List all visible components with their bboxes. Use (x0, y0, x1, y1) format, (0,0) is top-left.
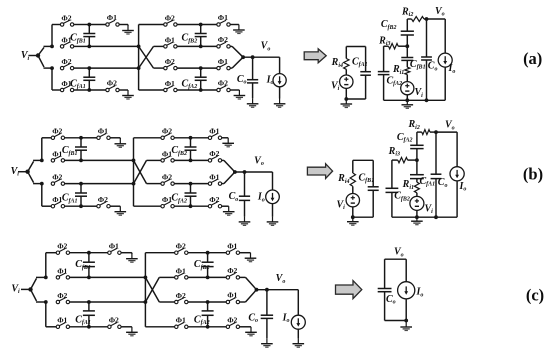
ground (341, 99, 353, 108)
ground (115, 206, 127, 215)
ground (245, 253, 257, 262)
node ground middle (405, 98, 409, 102)
wire (177, 67, 201, 69)
switch S8 phi1 a stage2-left (164, 42, 177, 48)
svg-text:Φ1: Φ1 (227, 291, 237, 300)
ground (267, 217, 279, 226)
wire (240, 252, 251, 254)
switch S10 phi1 c stage2-left (175, 323, 188, 329)
ground (274, 99, 286, 108)
svg-text:Φ2: Φ2 (109, 316, 119, 325)
wire (74, 89, 90, 91)
wire (240, 326, 251, 328)
wire (70, 301, 89, 303)
wire riser up (51, 25, 53, 47)
ground (245, 327, 257, 336)
wire riser up (41, 138, 43, 161)
ground (233, 25, 245, 34)
wire crossing diagonal 1 (134, 160, 147, 183)
node interstage (132, 159, 136, 163)
switch S11 phi1 a stage2-right (201, 24, 217, 26)
capacitor Co (a-eq) (426, 19, 428, 57)
switch S1 phi2 b stage1-left (51, 134, 64, 140)
node C (b-eq) (415, 158, 419, 162)
wire (222, 205, 229, 207)
switch S8 phi1 c stage2-left (175, 273, 188, 279)
capacitor CfA2 b (189, 182, 193, 186)
wire output diagonal from row2 (230, 45, 232, 47)
svg-text:Φ2: Φ2 (227, 266, 237, 275)
capacitor CfB2 (b-eq) (391, 160, 393, 188)
svg-text:Φ2: Φ2 (227, 316, 237, 325)
node ground left loop (351, 215, 355, 219)
svg-text:Φ1: Φ1 (109, 241, 119, 250)
wire (65, 159, 81, 161)
capacitor CfA1 c (87, 300, 91, 304)
wire (119, 89, 128, 91)
wire (177, 24, 201, 26)
current source Io b (272, 172, 274, 190)
switch S3 phi2 c stage1-left (56, 298, 69, 304)
switch S9 phi2 b stage2-left (161, 179, 174, 185)
wire interstage vertical (133, 138, 135, 206)
svg-text:Φ1: Φ1 (209, 127, 219, 136)
svg-text:Φ2: Φ2 (176, 242, 186, 251)
wire (65, 137, 81, 139)
wire (174, 205, 190, 207)
capacitor CfA1 a (87, 66, 91, 70)
switch S11 phi1 c stage2-right (208, 252, 227, 254)
wire (110, 137, 120, 139)
wire (38, 47, 44, 55)
wire bottom rail left loop (345, 88, 347, 99)
node interstage (144, 276, 148, 280)
wire (74, 24, 90, 26)
resistor Ri2 (b-eq) (417, 131, 422, 133)
capacitor CfA1 (b-eq) (416, 160, 418, 175)
switch S10 phi1 b stage2-left (161, 202, 174, 208)
wire (230, 89, 239, 91)
wire bottom rail (b-eq) (392, 216, 457, 218)
wire riser down (41, 184, 43, 207)
svg-text:Φ2: Φ2 (52, 173, 62, 182)
svg-text:Φ2: Φ2 (57, 242, 67, 251)
switch S2 phi1 c stage1-left (56, 273, 69, 279)
wire (188, 276, 208, 278)
switch S1 phi2 c stage1-left (56, 248, 69, 254)
wire bottom rail left loop (352, 207, 354, 217)
node (425, 98, 429, 102)
wire (177, 89, 201, 91)
wire output diagonal from row3 (222, 183, 224, 185)
svg-text:Φ2: Φ2 (165, 13, 175, 22)
node ground left loop (344, 97, 348, 101)
current source Io (a-eq) (444, 19, 446, 53)
svg-text:Φ2: Φ2 (165, 57, 175, 66)
wire (230, 24, 239, 26)
ground (122, 90, 134, 99)
svg-text:(a): (a) (523, 49, 542, 68)
ground (126, 253, 138, 262)
ground (223, 206, 235, 215)
ground (261, 338, 273, 347)
node Vo output b (233, 170, 237, 174)
resistor Ri2 (a-eq) (407, 18, 411, 20)
wire output diagonal from row2 (222, 159, 224, 161)
capacitor Co (b-eq) (435, 132, 437, 174)
switch S7 phi2 b stage2-left (161, 134, 174, 140)
svg-text:Φ2: Φ2 (162, 173, 172, 182)
ground (122, 25, 134, 34)
wire (81, 159, 134, 161)
resistor Ri1 (b-eq) (414, 182, 419, 193)
wire (81, 183, 134, 185)
resistor Ri4 (a-eq) (345, 47, 347, 59)
wire (70, 326, 89, 328)
svg-text:Φ1: Φ1 (57, 266, 67, 275)
switch S13 phi1 a stage2-right (201, 67, 217, 69)
svg-text:Φ2: Φ2 (209, 149, 219, 158)
current source Io c (297, 290, 299, 316)
node riser bottom (44, 300, 48, 304)
switch S5 phi1 b stage1 row1 to ground (81, 137, 97, 139)
switch S12 phi2 a stage2-right (201, 45, 217, 47)
capacitor CfB1 a (87, 23, 91, 27)
switch S6 phi2 c stage1 row4 to ground (89, 326, 108, 328)
svg-text:Φ1: Φ1 (176, 266, 186, 275)
ground (115, 138, 127, 147)
switch S14 phi2 c stage2-right (208, 326, 227, 328)
svg-text:Φ2: Φ2 (218, 35, 228, 44)
svg-text:Φ1: Φ1 (165, 79, 175, 88)
switch S14 phi2 a stage2-right (201, 89, 217, 91)
node Vo output c (255, 288, 259, 292)
capacitor CfB1 c (87, 251, 91, 255)
switch S10 phi1 a stage2-left (164, 86, 177, 92)
wire crossing diagonal 2 (139, 46, 154, 68)
node riser bottom (50, 66, 54, 70)
switch S8 phi1 b stage2-left (161, 156, 174, 162)
capacitor CfB2 b (189, 136, 193, 140)
wire riser down (51, 68, 53, 90)
voltage source Vi (a-eq left loop) (340, 75, 353, 88)
wire (174, 183, 190, 185)
svg-text:Φ1: Φ1 (107, 13, 117, 22)
arrow (c) implies (336, 281, 362, 299)
node (404, 319, 408, 323)
ground (402, 100, 414, 108)
node riser top (50, 45, 54, 49)
voltage source Vi (b-eq left loop) (346, 194, 359, 207)
node (434, 215, 438, 219)
resistor Ri4 (b-eq) (352, 160, 354, 173)
current source Io (b-eq) (456, 132, 458, 167)
switch S2 phi1 b stage1-left (51, 156, 64, 162)
resistor Ri1 (a-eq) (405, 67, 410, 74)
switch S7 phi2 c stage2-left (175, 248, 188, 254)
switch S5 phi1 a stage1 row1 to ground (89, 24, 106, 26)
node Vo output a (241, 55, 245, 59)
svg-text:Φ1: Φ1 (98, 127, 108, 136)
wire riser up (45, 253, 47, 278)
wire (174, 159, 190, 161)
voltage source Vi (a-eq middle) (406, 75, 408, 82)
wire (31, 278, 37, 289)
wire crossing diagonal 1 (139, 46, 154, 68)
wire output diagonal from row3 (240, 301, 246, 303)
svg-text:Φ1: Φ1 (227, 241, 237, 250)
svg-text:Φ2: Φ2 (57, 291, 67, 300)
capacitor CfA2 (a-eq) (383, 46, 385, 71)
capacitor CfB1 b (79, 136, 83, 140)
switch S3 phi2 b stage1-left (51, 179, 64, 185)
svg-text:(b): (b) (523, 165, 543, 184)
ground (400, 321, 412, 331)
svg-text:Φ2: Φ2 (61, 57, 71, 66)
switch S2 phi1 a stage1-left (60, 42, 73, 48)
wire riser down (45, 302, 47, 327)
capacitor CfA1 b (79, 182, 83, 186)
wire (177, 45, 201, 47)
svg-text:Φ1: Φ1 (57, 316, 67, 325)
ground (411, 217, 423, 225)
switch S6 phi2 b stage1 row4 to ground (81, 205, 97, 207)
ground (347, 217, 359, 225)
wire top rail left loop (353, 159, 373, 161)
capacitor CfB1 (b-eq) (372, 160, 374, 187)
switch S13 phi1 b stage2-right (191, 183, 209, 185)
wire (65, 205, 81, 207)
capacitor CfB2 c (206, 251, 210, 255)
svg-text:Φ1: Φ1 (218, 13, 228, 22)
voltage source Vi (b-eq middle) (416, 193, 418, 197)
switch S14 phi2 b stage2-right (191, 205, 209, 207)
capacitor Co (c-eq) (384, 259, 386, 288)
switch S13 phi1 c stage2-right (208, 301, 227, 303)
arrow (b) implies (307, 164, 332, 179)
current source Io a (279, 57, 281, 73)
wire (74, 45, 90, 47)
wire (121, 252, 132, 254)
wire (222, 137, 229, 139)
ground (239, 216, 251, 225)
switch S12 phi2 c stage2-right (208, 276, 227, 278)
svg-text:Φ1: Φ1 (209, 172, 219, 181)
wire (121, 326, 132, 328)
capacitor CfA1 (a-eq) (365, 47, 367, 72)
ground (247, 98, 259, 107)
capacitor CfB1 (a-eq) (406, 46, 408, 57)
wire (110, 205, 120, 207)
capacitor CfB2 (a-eq) (406, 35, 408, 46)
wire (89, 276, 145, 278)
resistor Ri3 (a-eq) (384, 45, 389, 47)
node ground middle (415, 215, 419, 219)
wire (119, 24, 128, 26)
wire (89, 45, 138, 47)
resistor Ri3 (b-eq) (392, 159, 398, 161)
wire bottom rail (a-eq) (384, 99, 446, 101)
switch S12 phi2 b stage2-right (191, 159, 209, 161)
ground (126, 327, 138, 336)
svg-text:Φ2: Φ2 (218, 79, 228, 88)
switch S5 phi1 c stage1 row1 to ground (89, 252, 108, 254)
capacitor CfA2 (b-eq) (416, 149, 418, 161)
wire (65, 183, 81, 185)
node interstage (137, 45, 141, 49)
capacitor CfB2 a (199, 23, 203, 27)
wire crossing diagonal 2 (134, 160, 147, 183)
capacitor Co a (252, 57, 254, 79)
node C (a-eq) (405, 44, 409, 48)
wire (28, 172, 34, 183)
wire (31, 289, 37, 301)
switch S4 phi1 a stage1-left (60, 86, 73, 92)
wire (70, 276, 89, 278)
switch S1 phi2 a stage1-left (60, 20, 73, 26)
ground (234, 90, 246, 99)
wire crossing diagonal 2 (145, 277, 159, 302)
capacitor Co b (244, 172, 246, 196)
wire (188, 326, 208, 328)
wire (70, 252, 89, 254)
wire bottom rail (c-eq) (385, 320, 407, 322)
wire top rail left loop (346, 46, 365, 48)
capacitor CfA2 c (206, 300, 210, 304)
switch S4 phi1 b stage1-left (51, 202, 64, 208)
svg-text:Φ1: Φ1 (176, 316, 186, 325)
wire output diagonal from row3 (230, 67, 232, 69)
switch S9 phi2 a stage2-left (164, 64, 177, 70)
wire crossing diagonal 1 (145, 277, 159, 302)
current source Io (c-eq) (405, 259, 407, 282)
switch S7 phi2 a stage2-left (164, 20, 177, 26)
switch S11 phi1 b stage2-right (191, 137, 209, 139)
node Vo (a-eq) (425, 17, 429, 21)
node Vo (b-eq) (434, 130, 438, 134)
wire (74, 67, 90, 69)
wire (174, 137, 190, 139)
svg-text:Φ2: Φ2 (162, 127, 172, 136)
node riser top (40, 159, 44, 163)
wire (89, 67, 138, 69)
svg-text:Φ1: Φ1 (165, 35, 175, 44)
arrow (a) implies (304, 49, 326, 63)
wire output diagonal from row2 (240, 276, 246, 278)
switch S6 phi2 a stage1 row4 to ground (89, 89, 106, 91)
svg-text:Φ2: Φ2 (52, 127, 62, 136)
switch S9 phi2 c stage2-left (175, 298, 188, 304)
capacitor Co c (266, 290, 268, 316)
node riser top (44, 276, 48, 280)
wire (188, 252, 208, 254)
wire (89, 301, 145, 303)
switch S3 phi2 a stage1-left (60, 64, 73, 70)
wire interstage vertical (138, 25, 140, 91)
svg-text:Φ1: Φ1 (218, 57, 228, 66)
svg-text:Φ2: Φ2 (61, 13, 71, 22)
wire (38, 56, 44, 68)
wire (28, 161, 34, 171)
svg-text:Φ2: Φ2 (107, 79, 117, 88)
svg-text:Φ2: Φ2 (176, 291, 186, 300)
ground (293, 338, 305, 347)
svg-text:(c): (c) (526, 286, 544, 305)
wire interstage vertical (144, 253, 146, 327)
node riser bottom (40, 182, 44, 186)
switch S4 phi1 c stage1-left (56, 323, 69, 329)
capacitor CfA2 a (199, 66, 203, 70)
wire (188, 301, 208, 303)
svg-text:Φ2: Φ2 (209, 195, 219, 204)
ground (222, 138, 234, 147)
svg-text:Φ2: Φ2 (98, 195, 108, 204)
